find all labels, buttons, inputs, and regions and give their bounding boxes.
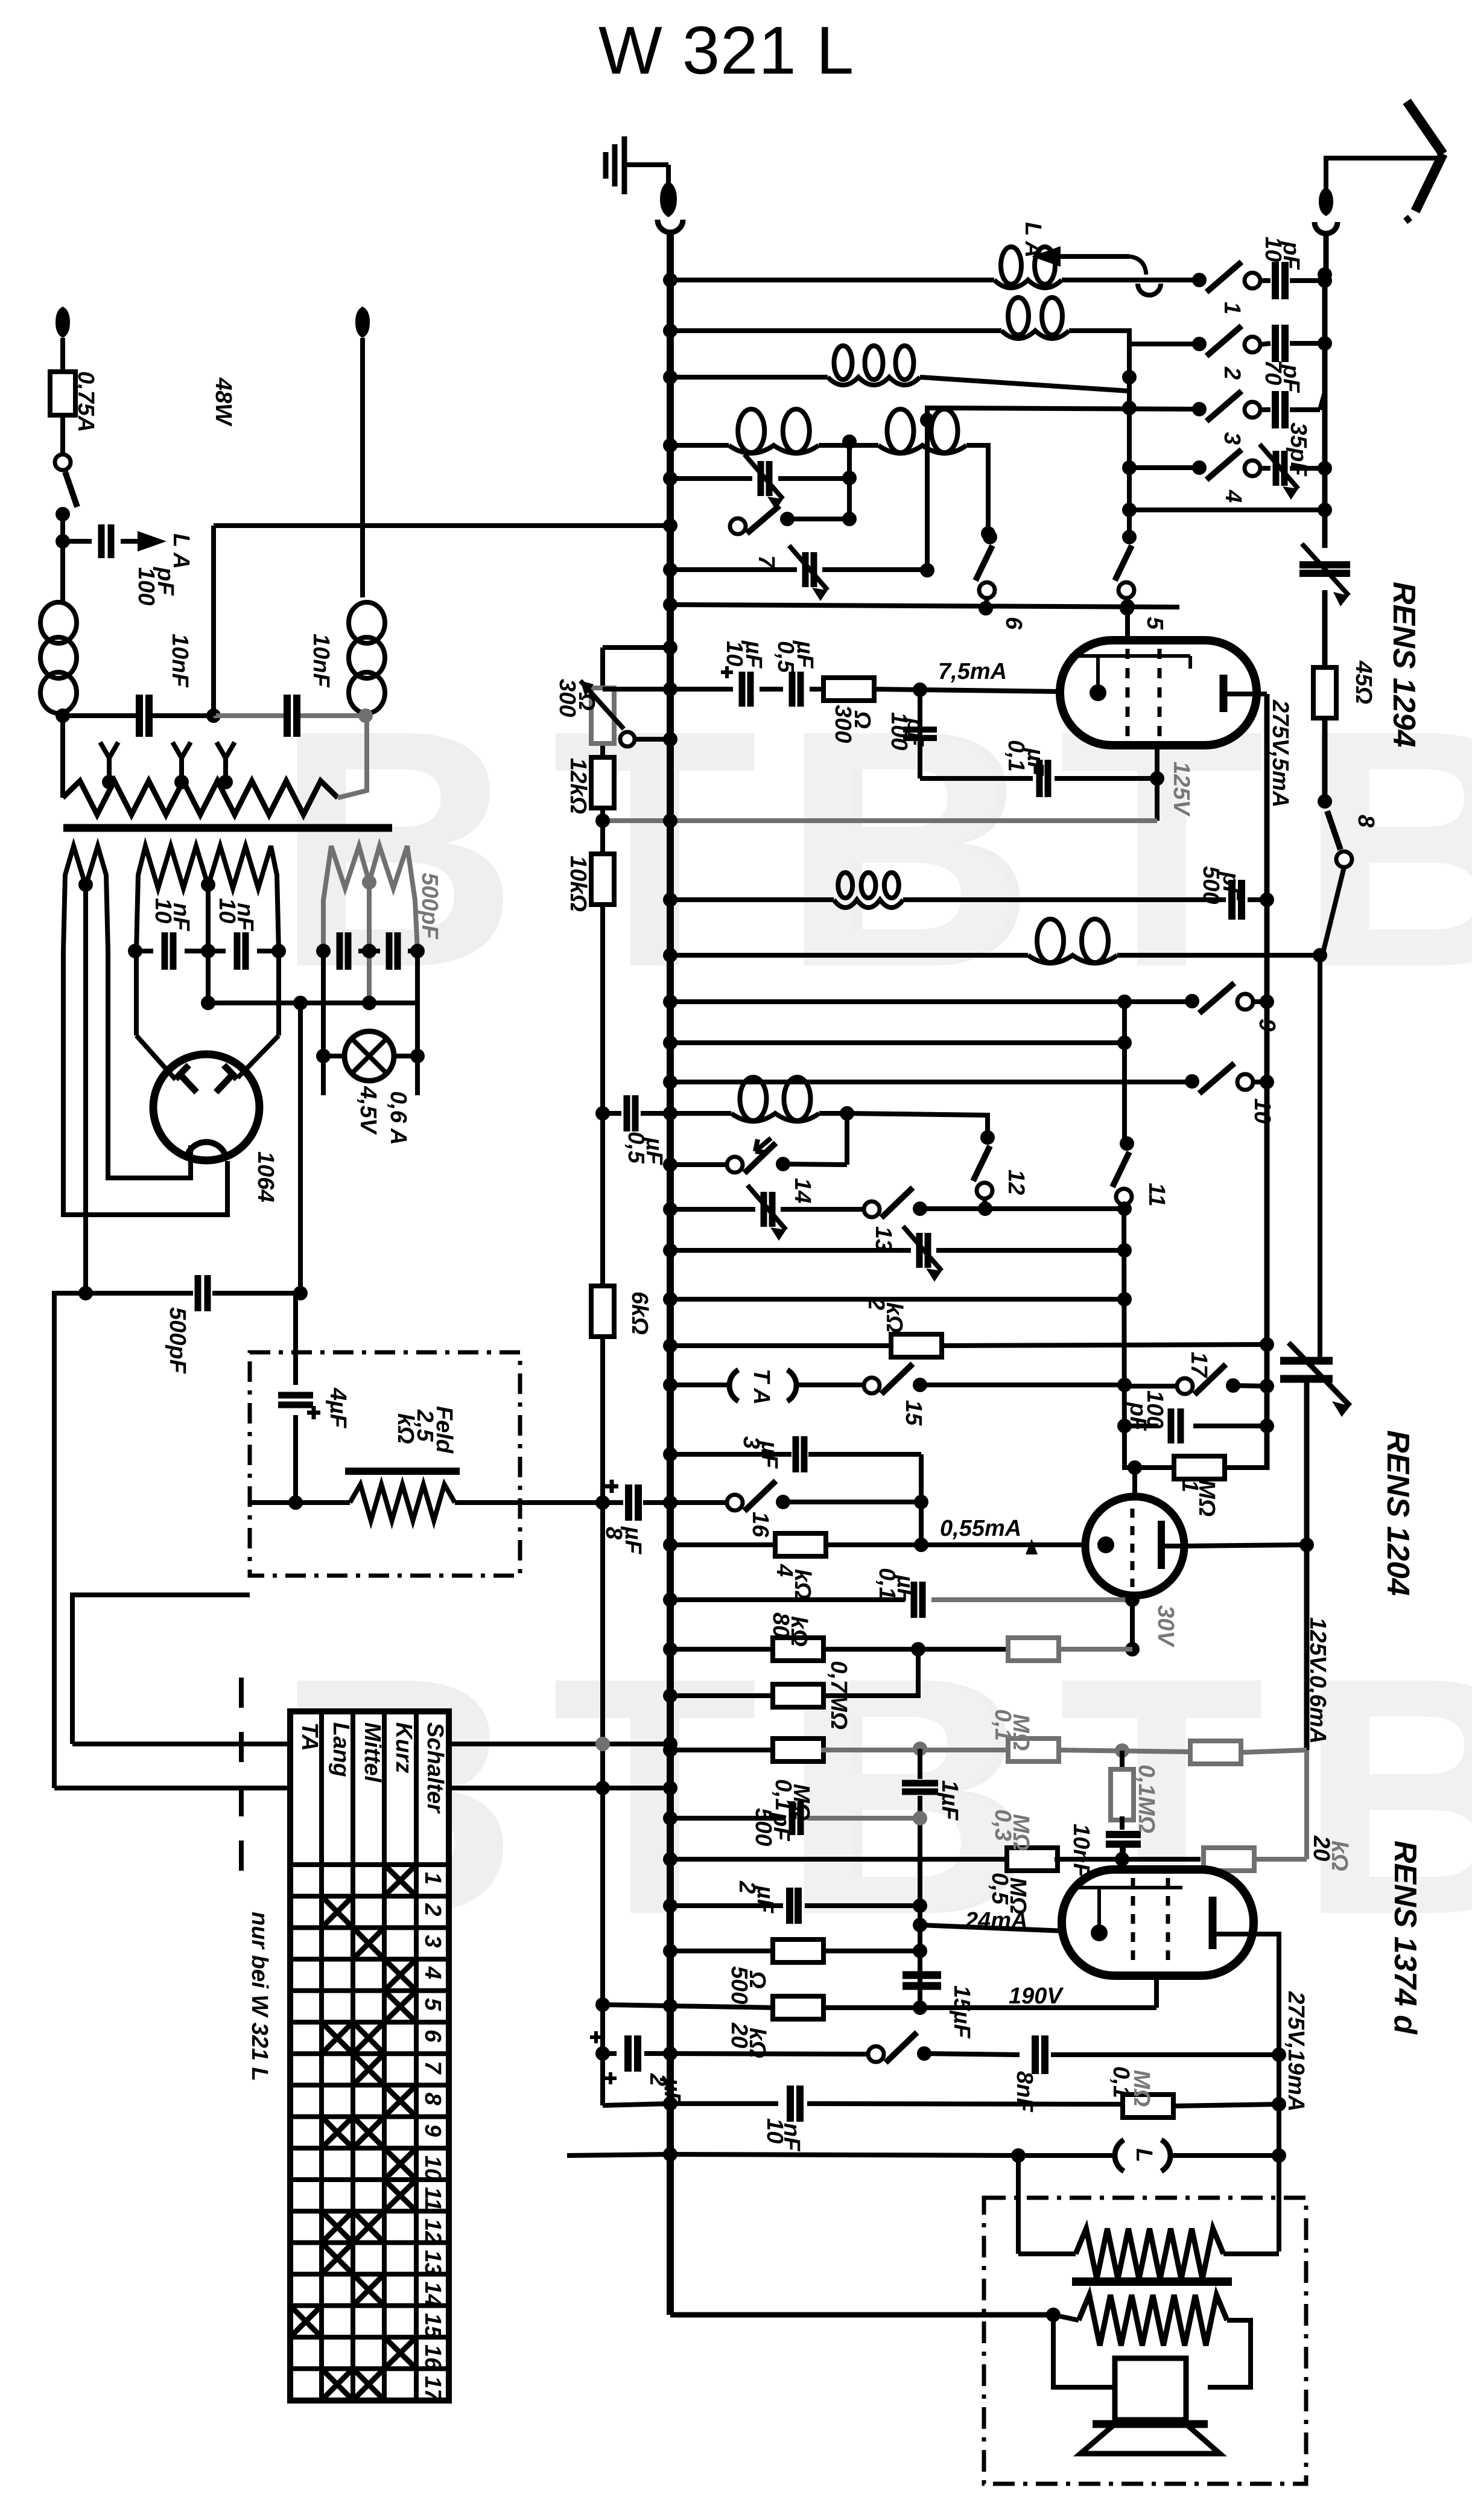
resistor 500 Ohm <box>773 1939 823 1962</box>
switch 1 <box>1192 273 1207 287</box>
svg-text:15: 15 <box>901 1400 926 1426</box>
svg-text:14: 14 <box>420 2282 445 2307</box>
grid chain down <box>918 1749 922 1779</box>
row wire 1142 cathode chain <box>603 687 670 692</box>
resistor 12kOhm <box>591 757 614 808</box>
svg-text:12: 12 <box>1003 1169 1029 1195</box>
switch 16 <box>727 1495 743 1510</box>
resistor 0,7MOhm <box>773 1684 823 1707</box>
svg-text:190V: 190V <box>1009 1984 1064 2009</box>
tube2 anode bar <box>1158 1521 1165 1569</box>
switch table <box>290 1711 449 2401</box>
rectifier filament lead B <box>108 951 191 1178</box>
svg-text:kΩ: kΩ <box>786 1616 811 1647</box>
output transformer core <box>1072 2277 1232 2286</box>
svg-text:0,6 A: 0,6 A <box>385 1091 411 1145</box>
tube3 grid lead <box>1121 1848 1126 1869</box>
wire 732-860 link <box>847 442 852 519</box>
switch 15 <box>864 1378 880 1393</box>
tube3 anode bar <box>1209 1897 1217 1949</box>
ground symbol <box>603 152 609 179</box>
svg-text:Kurz: Kurz <box>391 1722 416 1773</box>
heater tap detector <box>367 882 372 1003</box>
row wire 3327 20kOhm <box>603 2005 670 2006</box>
antenna symbol <box>1407 101 1443 154</box>
transformer core <box>63 824 392 832</box>
svg-text:13: 13 <box>871 1226 896 1252</box>
tube RENS 1204 <box>1085 1497 1184 1596</box>
capacitor 70pF <box>1272 325 1279 362</box>
resistor 0,1MOhm avc <box>1008 1638 1059 1661</box>
resistor 300 Ohm <box>823 678 874 701</box>
row wire 2,uF cap left <box>595 2046 610 2061</box>
switch 11 <box>1120 1136 1134 1151</box>
row wire 3233 500Ohm <box>670 1949 773 1953</box>
capacitor 2uF black <box>786 1888 793 1924</box>
svg-text:Ω: Ω <box>574 692 599 711</box>
transformer heater winding 2 <box>136 846 279 951</box>
svg-text:275V,5mA: 275V,5mA <box>1267 699 1293 807</box>
capacitor 0,1uF af <box>911 1582 918 1618</box>
row wire 2733 80kOhm <box>670 1647 775 1652</box>
capacitor 100pF osc <box>1168 1408 1175 1443</box>
svg-text:2: 2 <box>420 1903 445 1916</box>
wire to switch 12 <box>847 1113 988 1137</box>
svg-text:pF: pF <box>153 567 178 596</box>
svg-text:125V.0,6mA: 125V.0,6mA <box>1305 1617 1330 1744</box>
trimmer cap row793 <box>758 461 764 496</box>
svg-text:9: 9 <box>1254 1019 1280 1031</box>
row wire 2560 4kOhm <box>670 1542 775 1547</box>
capacitor 0,5uF a <box>789 672 796 707</box>
switch 14 <box>727 1157 743 1172</box>
svg-text:TA: TA <box>297 1722 322 1751</box>
row wire 2072 <box>670 1248 911 1253</box>
svg-text:1: 1 <box>1219 302 1245 314</box>
switch 12 <box>980 1130 995 1145</box>
wire sw14 up <box>845 1113 849 1165</box>
svg-text:13: 13 <box>420 2250 445 2276</box>
svg-text:3: 3 <box>420 1935 445 1948</box>
trimmer padder <box>1280 1357 1333 1365</box>
switch 10 <box>1185 1074 1199 1089</box>
row wire 738 <box>670 443 729 448</box>
svg-text:4: 4 <box>1220 489 1246 503</box>
rail right 2188 <box>1318 955 1322 1361</box>
svg-text:6: 6 <box>1001 617 1026 630</box>
capacitor 500pF field <box>54 1786 670 1790</box>
svg-text:pF: pF <box>1218 871 1243 901</box>
capacitor 10pF <box>1272 262 1279 299</box>
tube3 anode rail 275V19mA <box>1254 1934 1279 2251</box>
svg-text:10: 10 <box>420 2156 445 2181</box>
dial lamp 4,5V 0,6A <box>321 951 326 1095</box>
resistor 20kOhm b <box>1190 1741 1241 1764</box>
heater row 1662 <box>208 1001 417 1005</box>
svg-text:275V,19mA: 275V,19mA <box>1283 1991 1309 2111</box>
tube2 anode wire <box>1183 1545 1307 1546</box>
wire caps to rectifier anodes <box>134 951 139 1036</box>
coil sec 1 <box>828 377 920 385</box>
vertical 0,1MOhm c <box>1120 1751 1125 1774</box>
rail to switches row <box>1129 507 1325 512</box>
svg-text:pF: pF <box>1125 1402 1150 1431</box>
capacitor 100pF mains <box>63 539 92 544</box>
bus bottom wire to output transformer <box>670 2312 1053 2318</box>
lamp caps row <box>316 944 331 958</box>
svg-text:1064: 1064 <box>253 1151 278 1203</box>
arrow 0,55mA <box>1026 1539 1038 1554</box>
row wire 775 switch 4 <box>1129 465 1199 470</box>
wire padder bottom rail 125V <box>1304 1379 1310 1750</box>
rectifier tube 1064 <box>153 1054 259 1160</box>
svg-text:0,1MΩ: 0,1MΩ <box>1134 1764 1159 1833</box>
svg-text:µF: µF <box>641 1137 667 1166</box>
svg-text:1: 1 <box>420 1872 445 1885</box>
svg-text:10kΩ: 10kΩ <box>565 856 591 912</box>
transformer heater winding 3 <box>323 846 417 951</box>
jack TA <box>729 1370 738 1401</box>
antenna trimmer to ground <box>1299 561 1350 568</box>
svg-text:0,7MΩ: 0,7MΩ <box>826 1661 851 1729</box>
arrow L A mains <box>138 531 167 552</box>
svg-text:8nF: 8nF <box>1012 2071 1037 2113</box>
wire mains to bus <box>211 526 216 716</box>
row wire 2900 0,1MOhm <box>670 1748 775 1752</box>
row wire 3190 24mA <box>920 1925 1065 1931</box>
trimmer cap row2072 <box>916 1233 923 1268</box>
svg-text:µF: µF <box>1023 748 1048 777</box>
wire cathode3 <box>918 1906 922 2008</box>
svg-text:kΩ: kΩ <box>1327 1841 1352 1871</box>
row wire 1006 <box>670 605 1179 607</box>
output transformer secondary <box>1046 2308 1061 2322</box>
switch 6 <box>983 530 997 544</box>
power transformer primary <box>60 716 65 798</box>
svg-text:9: 9 <box>420 2124 445 2137</box>
row wire 3081 0,5MOhm <box>670 1857 1010 1862</box>
svg-text:10nF: 10nF <box>308 634 334 688</box>
capacitor 8uF <box>595 1495 610 1510</box>
svg-text:7: 7 <box>753 555 779 569</box>
row wire 944 trimmer <box>670 567 797 572</box>
capacitor 500pF af <box>789 1801 796 1835</box>
switch 3 <box>1192 402 1207 416</box>
svg-text:MΩ: MΩ <box>1008 1714 1033 1751</box>
row wire 625 <box>670 375 828 380</box>
tube RENS 1294 <box>1060 640 1257 745</box>
capacitor 15uF <box>903 1971 941 1979</box>
svg-text:RENS 1374 d: RENS 1374 d <box>1388 1841 1423 2035</box>
svg-text:MΩ: MΩ <box>1008 1814 1033 1851</box>
svg-text:Ω: Ω <box>744 1970 770 1989</box>
svg-text:pF: pF <box>1278 364 1304 393</box>
row wire 3405 8nF <box>670 2054 876 2054</box>
switch 17 <box>1125 1384 1185 1389</box>
wire ground to antenna jack <box>666 165 671 184</box>
mains plug pin 1 <box>56 307 70 338</box>
svg-text:µF: µF <box>659 2078 685 2107</box>
resistor 4kOhm <box>775 1533 826 1556</box>
dashed box speaker field <box>250 1352 520 1576</box>
svg-text:11: 11 <box>1144 1183 1169 1206</box>
svg-text:µF: µF <box>741 640 766 669</box>
row wire 3013 500pF <box>670 1816 785 1821</box>
svg-text:10nF: 10nF <box>167 634 192 688</box>
row wire 548 <box>670 328 1001 333</box>
svg-text:µF: µF <box>752 1885 778 1914</box>
svg-text:5: 5 <box>420 1998 445 2011</box>
svg-text:125V: 125V <box>1169 762 1194 816</box>
transformer heater winding 1 <box>63 846 108 951</box>
svg-text:nF: nF <box>168 903 194 932</box>
ladder rail right <box>1322 275 1328 510</box>
svg-text:Ω: Ω <box>849 710 875 729</box>
dashed box speaker <box>984 2198 1306 2484</box>
row wire 1660 <box>670 999 1192 1004</box>
row wire 2004 <box>670 1207 755 1212</box>
rectifier filament lead A <box>63 951 227 1215</box>
wire heater far left <box>54 1293 86 1788</box>
capacitor 8nF <box>1032 2035 1039 2074</box>
secondary left lead <box>1053 2315 1115 2387</box>
rectifier anode caps row <box>128 944 142 958</box>
svg-text:0,55mA: 0,55mA <box>940 1516 1021 1541</box>
row wire 2230 2kOhm <box>670 1343 892 1348</box>
svg-text:pF: pF <box>903 717 928 747</box>
coil ant 2 <box>1001 331 1069 339</box>
pot wiper wire <box>620 732 635 746</box>
row wire 2810 0,7MOhm <box>670 1693 775 1698</box>
resistor 1MOhm grid <box>1125 1468 1173 1470</box>
switch 9 <box>1185 994 1199 1008</box>
svg-text:kΩ: kΩ <box>881 1302 907 1333</box>
row wire 3486 10nF <box>603 2104 670 2105</box>
resistor 20kOhm a <box>773 1996 823 2019</box>
switch 2 <box>1192 337 1207 351</box>
svg-text:4,5V: 4,5V <box>355 1086 381 1135</box>
svg-text:L A: L A <box>1020 222 1045 258</box>
trimmer cap 13 <box>761 1192 767 1227</box>
svg-text:12: 12 <box>420 2218 445 2244</box>
svg-text:6: 6 <box>420 2029 445 2043</box>
row wire 793 trimmer <box>670 476 752 481</box>
row wire 676 to switch 3 <box>927 408 1199 420</box>
svg-text:nur bei W 321 L: nur bei W 321 L <box>247 1912 272 2081</box>
svg-text:µF: µF <box>620 1526 646 1555</box>
svg-text:µF: µF <box>892 1574 918 1603</box>
coil osc feedback <box>731 1113 819 1121</box>
tube1 anode rail 275V <box>1257 692 1267 696</box>
svg-text:µF: µF <box>757 1440 782 1469</box>
resistor 10kOhm <box>591 854 614 905</box>
transformer primary taps <box>100 742 118 782</box>
row wire 1845 0,5uF <box>595 1106 610 1121</box>
tube1 anode bar <box>1220 675 1228 712</box>
capacitor 0,5uF bus <box>624 1095 630 1131</box>
node mains center <box>206 708 221 723</box>
svg-text:W 321 L: W 321 L <box>598 13 854 88</box>
svg-text:kΩ: kΩ <box>744 2028 770 2058</box>
field supply wire <box>72 1595 250 1744</box>
resistor 0,1MOhm d <box>1123 2095 1173 2117</box>
row wire 2363 100pF <box>1125 1424 1158 1428</box>
svg-text:17: 17 <box>420 2376 445 2402</box>
capacitor 500pF heater <box>86 1291 193 1296</box>
row wire 1360 <box>603 818 1157 823</box>
antenna input jack socket <box>1315 222 1337 234</box>
secondary right lead <box>1208 2320 1251 2387</box>
right coil rail <box>1127 331 1132 537</box>
switch 8 <box>1318 794 1332 809</box>
svg-text:15: 15 <box>420 2313 445 2339</box>
trimmer cap row944 <box>802 552 809 587</box>
svg-text:16: 16 <box>747 1512 773 1538</box>
row wire 2651 0,1uF <box>670 1597 905 1602</box>
tube2 bottom lead <box>1130 1596 1135 1649</box>
capacitor 100pF tube1 <box>903 727 937 733</box>
coil MW a <box>729 445 819 453</box>
row wire 1491 <box>670 897 834 902</box>
node mains left <box>56 708 70 723</box>
wire coil to switch6 rail <box>966 445 988 533</box>
capacitor 10uF <box>739 672 746 707</box>
coil MW b <box>878 445 966 453</box>
svg-text:17: 17 <box>1186 1352 1211 1378</box>
wire lamp rail down <box>298 1003 303 1293</box>
field coil Feld 2,5kOhm <box>345 1468 460 1475</box>
svg-text:Mittel: Mittel <box>360 1722 385 1783</box>
trimmer cap ant 4 <box>1273 451 1280 486</box>
row wire 3158 2uF <box>670 1903 783 1908</box>
row wire 1728 <box>670 1040 1125 1045</box>
resistor 6kOhm <box>591 1286 614 1337</box>
svg-text:35pF: 35pF <box>1286 422 1311 477</box>
svg-text:14: 14 <box>790 1178 815 1203</box>
svg-text:1µF: 1µF <box>937 1780 962 1821</box>
svg-text:10nF: 10nF <box>1068 1824 1094 1878</box>
svg-text:pF: pF <box>769 1812 794 1842</box>
resistor 0,3MOhm <box>1008 1739 1059 1761</box>
svg-text:500pF: 500pF <box>165 1307 190 1375</box>
wire switch8 to rail <box>1322 867 1344 955</box>
coil IF 2 <box>1028 955 1117 963</box>
svg-text:µF: µF <box>792 640 817 669</box>
tube RENS 1374 d <box>1062 1869 1254 1976</box>
svg-text:4µF: 4µF <box>325 1387 351 1429</box>
row wire 3572 <box>567 2154 670 2156</box>
svg-text:30V: 30V <box>1153 1605 1178 1647</box>
switch 5 <box>1122 530 1137 544</box>
main chassis bus wire <box>667 234 674 2315</box>
row wire 1793 <box>670 1080 1192 1084</box>
row wire 2153 <box>670 1297 1125 1302</box>
tube3 bottom lead <box>1154 1976 1159 2008</box>
mains switch <box>55 454 71 470</box>
mains coil 2 <box>349 602 385 643</box>
svg-text:15µF: 15µF <box>949 1985 974 2039</box>
svg-text:5: 5 <box>1142 617 1167 630</box>
junction mains node <box>56 534 70 549</box>
row wire 1583 <box>670 953 1028 958</box>
wire jack down <box>1016 2156 1021 2254</box>
rail x1864 <box>1122 1002 1127 1141</box>
coil L A primary <box>994 280 1062 288</box>
jack L <box>1018 2153 1113 2158</box>
capacitor 10nF right <box>214 713 284 718</box>
svg-text:0,75A: 0,75A <box>73 371 98 432</box>
tube1 bottom lead <box>1155 745 1160 821</box>
wire coil2 top rail <box>925 420 930 570</box>
tube2 grid lead <box>1132 1468 1137 1497</box>
svg-text:T A: T A <box>749 1369 774 1405</box>
potentiometer 300 Ohm <box>591 688 614 743</box>
capacitor 3uF <box>793 1436 799 1472</box>
svg-text:10: 10 <box>1249 1098 1275 1124</box>
heater center node <box>293 1286 308 1300</box>
svg-text:Lang: Lang <box>328 1722 354 1777</box>
svg-text:nF: nF <box>779 2123 804 2152</box>
row wire 1930 switch 14 <box>670 1162 735 1167</box>
wire grid chain down <box>918 690 922 778</box>
output transformer primary <box>1018 2251 1076 2256</box>
capacitor 0,1uF tube1 <box>1036 760 1043 797</box>
row wire 2490 switch 16 <box>670 1500 735 1505</box>
svg-text:7,5mA: 7,5mA <box>938 659 1007 684</box>
coil IF 1 <box>834 900 903 908</box>
capacitor 35pF <box>1272 391 1279 428</box>
svg-text:24mA: 24mA <box>965 1908 1028 1933</box>
resistor 0,5MOhm <box>1007 1848 1058 1871</box>
capacitor 1uF <box>902 1780 938 1787</box>
row wire 1290 <box>920 776 1033 781</box>
svg-text:kΩ: kΩ <box>790 1569 815 1600</box>
resistor 0,1MOhm b <box>773 1739 823 1761</box>
resistor 20kOhm c <box>1204 1848 1254 1871</box>
row wire 2410 3uF <box>670 1452 792 1457</box>
svg-text:MΩ: MΩ <box>1129 2070 1154 2107</box>
svg-text:6kΩ: 6kΩ <box>627 1291 652 1335</box>
svg-text:pF: pF <box>1278 241 1304 270</box>
resistor 2kOhm <box>891 1334 942 1357</box>
svg-text:Schalter: Schalter <box>422 1722 448 1814</box>
fuse 0,75A <box>50 372 75 415</box>
svg-text:16: 16 <box>420 2344 445 2370</box>
svg-text:12kΩ: 12kΩ <box>565 758 591 814</box>
svg-text:L A: L A <box>168 533 194 569</box>
switch 7 <box>730 518 746 534</box>
capacitor 2uF left <box>624 2035 632 2072</box>
svg-text:nF: nF <box>232 903 258 932</box>
svg-text:500pF: 500pF <box>417 873 442 940</box>
wire bus to rail top <box>603 645 670 650</box>
dash nur bei <box>239 1678 244 1895</box>
row wire 2295 TA input <box>670 1382 728 1387</box>
svg-text:kΩ: kΩ <box>393 1413 418 1444</box>
resistor 80kOhm <box>773 1638 823 1661</box>
mains plug pin 2 <box>355 307 370 338</box>
svg-text:45Ω: 45Ω <box>1351 660 1376 704</box>
svg-text:L: L <box>1131 2148 1156 2162</box>
switch 13 <box>864 1201 880 1217</box>
resistor 45 Ohm <box>1313 667 1336 718</box>
speaker <box>1115 2358 1186 2420</box>
switch 18 <box>868 2046 884 2062</box>
svg-text:4: 4 <box>420 1966 445 1979</box>
svg-text:MΩ: MΩ <box>1194 1480 1219 1516</box>
capacitor 4uF <box>293 1293 298 1385</box>
heater tap output <box>206 885 211 1003</box>
